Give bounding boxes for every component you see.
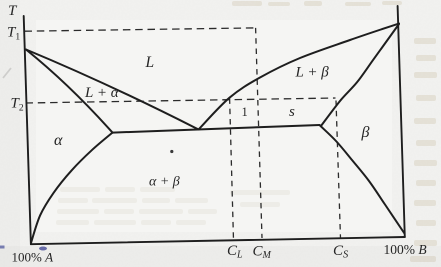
svg-text:α: α: [54, 132, 63, 149]
svg-text:β: β: [361, 124, 370, 141]
svg-text:α + β: α + β: [149, 175, 180, 190]
svg-text:L + β: L + β: [295, 65, 330, 81]
svg-text:100% A: 100% A: [12, 250, 54, 265]
svg-text:s: s: [289, 104, 295, 120]
svg-text:100% B: 100% B: [384, 242, 427, 257]
svg-text:1: 1: [242, 105, 248, 119]
svg-text:L + α: L + α: [84, 85, 120, 101]
svg-text:L: L: [145, 54, 155, 71]
